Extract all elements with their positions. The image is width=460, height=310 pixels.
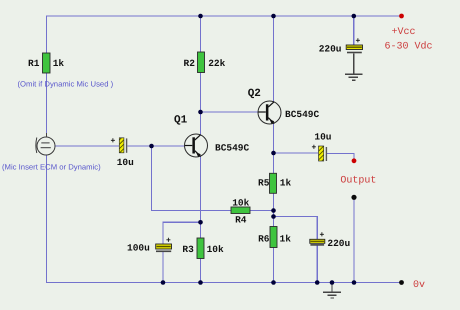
resistor R6 [258, 227, 291, 248]
svg-text:0v: 0v [413, 280, 425, 291]
junction node output load bottom [352, 280, 357, 285]
junction node Q2 emitter [271, 151, 276, 156]
wire C4 bottom [316, 245, 318, 283]
svg-text:Output: Output [340, 176, 376, 187]
capacitor C3 10u output [312, 131, 332, 161]
svg-text:R4: R4 [235, 215, 247, 226]
junction node Q2 collector top [271, 14, 276, 19]
svg-text:+: + [356, 37, 361, 46]
transistor Q2 [248, 88, 320, 124]
junction node R2 top [198, 14, 203, 19]
svg-text:R6: R6 [258, 233, 270, 244]
svg-text:BC549C: BC549C [285, 109, 320, 120]
svg-text:1k: 1k [280, 233, 292, 244]
resistor R5 [258, 173, 292, 193]
junction node C5 top [352, 14, 357, 19]
resistor R3 [182, 238, 224, 259]
wire Q1 emitter down [200, 157, 202, 239]
wire node C to C4 220u [274, 217, 318, 240]
wire R3 bottom [200, 258, 202, 283]
junction node C2 bottom [161, 280, 166, 285]
svg-text:+: + [312, 144, 317, 153]
wire C1 to Q1 base [128, 145, 186, 147]
wire R1 bottom to mic [46, 73, 48, 138]
wire R2 to Q1 collector [200, 73, 202, 135]
wire top rail [47, 15, 402, 17]
wire Q1 collector to Q2 base [201, 111, 259, 113]
junction node ground [330, 280, 335, 285]
junction node B R4/R5 [271, 208, 276, 213]
wire mic to C1 [55, 145, 119, 147]
junction node R6 bottom [271, 280, 276, 285]
svg-text:R2: R2 [184, 58, 196, 69]
ground (bottom) [323, 283, 341, 298]
wire node A down to R4 [152, 146, 232, 211]
capacitor C1 10u input [111, 137, 135, 168]
svg-text:Q2: Q2 [248, 88, 261, 100]
wire R6 bottom [273, 248, 275, 283]
transistor Q1 [174, 115, 250, 158]
svg-text:220u: 220u [327, 238, 350, 249]
svg-text:(Mic Insert ECM or Dynamic): (Mic Insert ECM or Dynamic) [2, 163, 101, 172]
junction node C R6 top [271, 214, 276, 219]
resistor R4 [231, 198, 250, 226]
wire mic bottom + bottom rail [47, 155, 402, 283]
junction node C4 bottom [315, 280, 320, 285]
svg-text:BC549C: BC549C [215, 143, 250, 154]
svg-text:R5: R5 [258, 178, 270, 189]
svg-text:+Vcc: +Vcc [392, 27, 416, 38]
svg-text:1k: 1k [53, 58, 65, 69]
wire left rail upper (Vcc to R1) [46, 15, 48, 53]
svg-text:+: + [111, 137, 116, 146]
capacitor C2 100u [127, 237, 172, 254]
svg-text:10u: 10u [117, 157, 134, 168]
svg-text:22k: 22k [208, 58, 225, 69]
wire emitter node to C3 [274, 152, 319, 154]
svg-text:R3: R3 [182, 244, 194, 255]
wire Q2 emitter to R5 [273, 124, 275, 174]
svg-text:1k: 1k [280, 178, 292, 189]
node output + terminal [352, 158, 357, 163]
junction node Q1 emitter/R3 [198, 220, 203, 225]
svg-text:220u: 220u [319, 44, 342, 55]
svg-text:R1: R1 [28, 58, 40, 69]
svg-text:Q1: Q1 [174, 115, 188, 127]
svg-text:10k: 10k [207, 244, 224, 255]
wire R5 bottom to R6 top [273, 193, 275, 227]
wire C3 to output dot [327, 154, 354, 159]
junction node Q1 collector [198, 110, 203, 115]
microphone MIC1 [36, 133, 55, 155]
node +Vcc terminal [399, 14, 404, 19]
resistor R1 [28, 53, 64, 73]
svg-text:100u: 100u [127, 243, 150, 254]
node output top terminal [351, 195, 356, 200]
svg-text:10u: 10u [314, 131, 331, 142]
svg-text:10k: 10k [232, 198, 249, 209]
wire node to C2 100u [163, 222, 201, 244]
wire Q2 collector to top rail [273, 16, 275, 102]
capacitor C4 220u emitter bypass [310, 231, 351, 249]
wire top rail to C5 220u [353, 16, 355, 45]
svg-text:6-30 Vdc: 6-30 Vdc [385, 41, 433, 53]
svg-text:+: + [166, 237, 171, 246]
ground (supply) [345, 54, 363, 81]
resistor R2 [184, 52, 226, 73]
svg-text:(Omit if Dynamic Mic Used ): (Omit if Dynamic Mic Used ) [18, 80, 114, 89]
capacitor C5 220u supply [319, 37, 363, 55]
wire C2 bottom [162, 252, 164, 283]
wire top rail to R2 [200, 16, 202, 53]
svg-text:+: + [320, 231, 325, 240]
wire output load [353, 197, 355, 282]
node 0v terminal [399, 280, 404, 285]
junction node R3 bottom [198, 280, 203, 285]
wire R4 to node B [250, 210, 274, 212]
junction node input [149, 144, 154, 149]
